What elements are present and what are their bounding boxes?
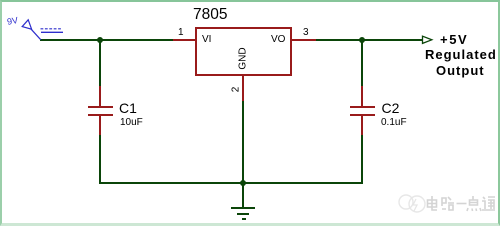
watermark logo icon	[396, 188, 500, 222]
pin name VI	[202, 34, 211, 45]
路	[442, 197, 454, 210]
通	[482, 197, 495, 210]
watermark text 电路一点通 approximation	[428, 196, 496, 211]
wire: VO pin to output arrow	[316, 39, 422, 41]
capacitor C1 bottom lead (red)	[99, 116, 101, 135]
capacitor C2 bottom plate	[350, 114, 375, 116]
wire: ground stem	[242, 183, 244, 208]
label 9V (blue, rotated)	[6, 15, 19, 27]
value 0.1uF	[381, 117, 407, 128]
pin number 3	[303, 27, 309, 38]
ground symbol bar 2	[237, 213, 249, 215]
wire: C2 to bottom rail	[361, 135, 363, 184]
value 10uF	[120, 117, 143, 128]
ground symbol bar 3	[242, 218, 246, 220]
node C junction dot (ground rail)	[240, 180, 246, 186]
wire: input terminal to VI pin (horizontal, y=39)	[40, 39, 173, 41]
一	[457, 203, 467, 205]
capacitor C2 top lead (red)	[361, 86, 363, 106]
电	[428, 196, 438, 210]
input terminal symbol (blue)	[0, 0, 80, 50]
wire: bottom ground rail	[99, 182, 363, 184]
pin name GND (rotated)	[238, 39, 249, 79]
pin 1 of U1 (red pin segment)	[173, 39, 195, 41]
output arrow terminal	[415, 30, 440, 50]
wire: pin 2 down to ground rail	[242, 101, 244, 183]
capacitor C1 top lead (red)	[99, 86, 101, 106]
pin number 1	[178, 27, 184, 38]
点	[467, 196, 481, 211]
capacitor C2 top plate	[350, 106, 375, 108]
node A junction dot (input / C1)	[97, 37, 103, 43]
regulator U1 7805 body	[195, 27, 292, 76]
label +5V	[440, 32, 468, 47]
label C2	[382, 101, 400, 115]
wire: C2 branch down from node B	[361, 39, 363, 86]
ground symbol bar 1	[231, 207, 255, 209]
wire: C1 branch down from node A	[99, 39, 101, 86]
pin number 2 (rotated)	[231, 80, 242, 100]
label C1	[119, 101, 137, 115]
pin name VO	[271, 34, 285, 45]
pin 3 of U1 (red pin segment)	[292, 39, 316, 41]
label Regulated	[425, 47, 497, 62]
capacitor C1 bottom plate	[88, 114, 113, 116]
capacitor C1 top plate	[88, 106, 113, 108]
node B junction dot (output / C2)	[359, 37, 365, 43]
wire: C1 to bottom rail	[99, 135, 101, 184]
label 7805	[193, 7, 227, 23]
pin 2 of U1 (red pin segment, vertical)	[242, 76, 244, 101]
label Output	[436, 63, 485, 78]
capacitor C2 bottom lead (red)	[361, 116, 363, 135]
